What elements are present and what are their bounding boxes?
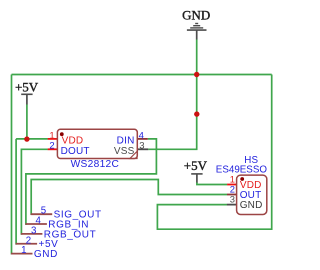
wire +5V to U2 VDD — [197, 183, 227, 185]
wire +5V stem — [26, 105, 28, 139]
power symbol +5V (left) — [15, 80, 39, 105]
body U1 — [57, 129, 137, 158]
svg-text:4: 4 — [139, 130, 144, 141]
svg-text:ES49ESSO: ES49ESSO — [216, 164, 268, 175]
pin 3 GND stub — [227, 204, 237, 206]
svg-text:+5V: +5V — [15, 80, 39, 95]
svg-text:5: 5 — [41, 206, 46, 217]
svg-text:VSS: VSS — [114, 146, 135, 157]
power symbol +5V (right) — [184, 158, 208, 183]
junction dot on top wire — [194, 72, 199, 77]
pin 2 +5V stub — [16, 243, 37, 245]
pin 4 DIN stub — [137, 138, 148, 140]
connector J1 — [11, 206, 102, 260]
junction dot on GND vertical — [194, 111, 199, 116]
pin1 marker dot — [240, 177, 244, 181]
clock marker triangle on pin 3 — [130, 151, 137, 158]
svg-text:1: 1 — [21, 245, 26, 256]
svg-text:+5V: +5V — [184, 158, 208, 173]
IC U1 WS2812C — [48, 129, 149, 170]
svg-text:1: 1 — [49, 130, 54, 141]
pin 1 GND stub — [11, 253, 33, 255]
pin 3 RGB_OUT stub — [21, 233, 43, 235]
wire U2 OUT to connector SIG_OUT — [31, 180, 227, 215]
wire DOUT to connector RGB_OUT — [21, 149, 48, 234]
wire +5V down to connector pin2 — [16, 139, 17, 244]
wire DIN to connector RGB_IN — [26, 139, 157, 224]
svg-text:GND: GND — [240, 200, 263, 211]
svg-text:GND: GND — [182, 7, 210, 22]
pin1 marker dot — [60, 132, 64, 136]
wire GND net right loop to U2 pin3 — [157, 75, 271, 230]
junction dot +5V — [24, 136, 29, 141]
IC U2 ES49ESSO — [216, 155, 268, 215]
wire GND net top horizontal — [12, 74, 272, 76]
pin 4 RGB_IN stub — [25, 223, 47, 225]
svg-text:3: 3 — [230, 194, 235, 205]
body U2 — [237, 175, 267, 214]
svg-text:2: 2 — [49, 141, 54, 152]
pin 1 VDD stub — [48, 138, 58, 140]
pin 2 DOUT stub — [48, 148, 58, 150]
pin 5 SIG_OUT stub — [31, 213, 53, 215]
svg-text:3: 3 — [139, 141, 144, 152]
svg-text:DOUT: DOUT — [61, 146, 90, 157]
svg-text:3: 3 — [31, 225, 36, 236]
wire GND net left vertical down to connector pin1 — [12, 75, 13, 254]
pin 2 OUT stub — [227, 194, 237, 196]
power symbol GND (top earth ground) — [182, 7, 210, 39]
pin 1 VDD stub — [227, 184, 237, 186]
svg-text:GND: GND — [34, 249, 58, 260]
wire GND stem down to VSS pin — [148, 40, 196, 150]
wire +5V horizontal to U1 VDD — [16, 138, 48, 140]
pin 3 VSS stub — [137, 148, 148, 150]
svg-text:2: 2 — [26, 235, 31, 246]
svg-text:WS2812C: WS2812C — [71, 159, 120, 170]
